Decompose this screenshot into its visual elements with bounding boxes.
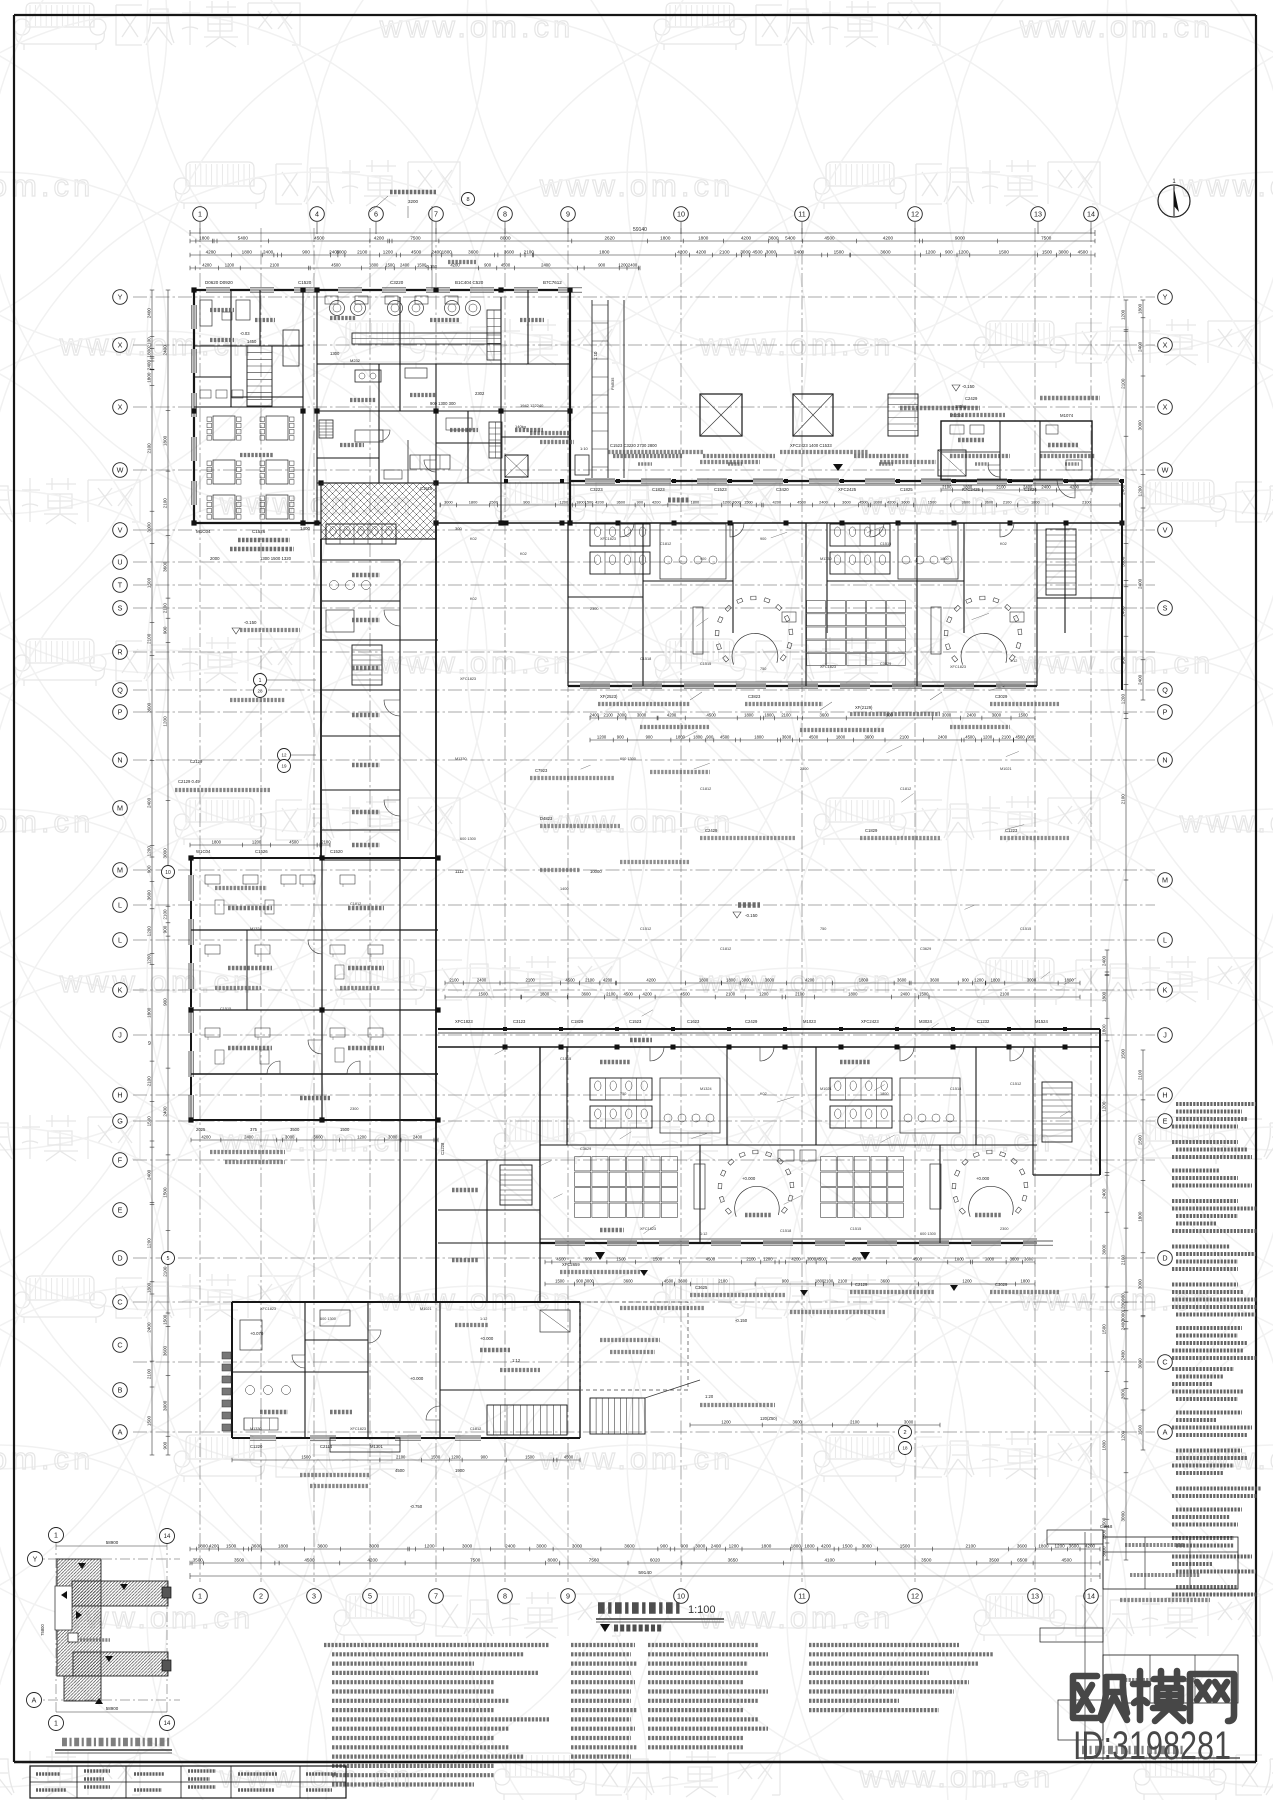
svg-text:Q: Q	[1162, 686, 1168, 695]
svg-text:4200: 4200	[741, 235, 752, 240]
svg-text:2400: 2400	[1102, 1188, 1107, 1199]
annotations below lower wing	[545, 1261, 1035, 1263]
svg-text:C1518: C1518	[950, 1087, 961, 1091]
svg-text:2000: 2000	[210, 556, 220, 561]
svg-text:C: C	[117, 1341, 122, 1350]
svg-text:1: 1	[198, 210, 202, 219]
svg-text:1500: 1500	[226, 1543, 237, 1548]
svg-text:C3823: C3823	[748, 694, 761, 699]
notes column 3	[648, 1643, 758, 1647]
svg-text:900: 900	[163, 1441, 168, 1449]
svg-text:180kg: 180kg	[955, 404, 967, 409]
svg-text:1200: 1200	[146, 846, 151, 857]
boiler/stair hatch blocks	[319, 420, 333, 438]
svg-text:59140: 59140	[638, 1570, 652, 1576]
svg-text:1800: 1800	[1138, 1211, 1143, 1222]
svg-text:300: 300	[455, 526, 462, 531]
svg-text:900: 900	[523, 499, 530, 504]
svg-text:XFC1823: XFC1823	[455, 1019, 473, 1024]
svg-text:1500: 1500	[842, 1543, 853, 1548]
svg-text:1200: 1200	[958, 249, 969, 254]
svg-text:1800: 1800	[991, 977, 1001, 982]
svg-text:120(Z50): 120(Z50)	[760, 1416, 778, 1421]
svg-text:M1021: M1021	[820, 1087, 832, 1091]
svg-text:1800: 1800	[691, 499, 700, 504]
svg-text:1200: 1200	[983, 734, 993, 739]
svg-text:B7C7612: B7C7612	[543, 280, 562, 285]
svg-text:1500: 1500	[555, 1278, 565, 1283]
svg-text:3600: 3600	[962, 499, 971, 504]
svg-text:M1330: M1330	[250, 1427, 262, 1431]
svg-text:4500: 4500	[565, 977, 575, 982]
svg-text:3000: 3000	[873, 499, 882, 504]
svg-text:Q: Q	[117, 686, 123, 695]
svg-text:Y: Y	[33, 1557, 38, 1564]
fire diagram hatched shape	[55, 1559, 168, 1701]
page border frame	[14, 14, 1256, 16]
svg-text:1800: 1800	[599, 249, 610, 254]
svg-text:1200: 1200	[424, 1543, 435, 1548]
svg-text:2300: 2300	[350, 1107, 358, 1111]
svg-text:900: 900	[962, 977, 970, 982]
svg-text:1200: 1200	[451, 1454, 461, 1459]
svg-text:58900: 58900	[106, 1540, 119, 1545]
svg-text:1200: 1200	[759, 991, 769, 996]
svg-text:1500: 1500	[653, 1256, 663, 1261]
svg-text:3000: 3000	[695, 1543, 706, 1548]
svg-text:2100: 2100	[781, 712, 791, 717]
notes column 4 (fire compartment notes)	[809, 1643, 959, 1647]
svg-text:C1223: C1223	[1005, 828, 1018, 833]
svg-text:J: J	[1163, 1031, 1167, 1040]
svg-text:C1518: C1518	[1100, 1524, 1113, 1529]
svg-text:900: 900	[147, 865, 152, 873]
svg-text:1200: 1200	[618, 262, 628, 267]
svg-text:3600: 3600	[768, 235, 779, 240]
svg-text:3000: 3000	[1120, 1388, 1125, 1399]
svg-text:1500: 1500	[919, 991, 929, 996]
svg-text:3500: 3500	[989, 1557, 1000, 1562]
svg-text:C1515: C1515	[700, 662, 711, 666]
svg-text:C3220: C3220	[390, 280, 404, 285]
svg-text:C1829: C1829	[865, 828, 878, 833]
svg-text:-0.150: -0.150	[735, 1318, 748, 1323]
svg-text:M1021: M1021	[420, 1307, 432, 1311]
svg-text:3200: 3200	[408, 199, 419, 204]
svg-text:M232: M232	[350, 358, 361, 363]
svg-text:900 1300 300: 900 1300 300	[430, 401, 456, 406]
svg-text:XFC2425: XFC2425	[838, 487, 857, 492]
svg-text:900: 900	[886, 712, 894, 717]
svg-text:4500: 4500	[707, 712, 717, 717]
bottom axis bubbles	[193, 1589, 208, 1604]
svg-text:900: 900	[585, 1256, 593, 1261]
svg-text:4100: 4100	[824, 1557, 835, 1562]
svg-text:1500: 1500	[147, 1415, 152, 1426]
svg-text:11: 11	[798, 210, 805, 219]
washroom cluster 2 top wing	[830, 524, 890, 546]
svg-text:C2129: C2129	[855, 1282, 868, 1287]
svg-text:H: H	[117, 1091, 122, 1100]
svg-text:M1330: M1330	[820, 557, 832, 561]
svg-text:2025: 2025	[196, 1127, 206, 1132]
svg-text:2100: 2100	[449, 977, 459, 982]
fire diagram grid	[55, 1540, 57, 1725]
right notes column	[1176, 1102, 1256, 1106]
svg-text:M1C04: M1C04	[196, 529, 211, 534]
svg-text:1500: 1500	[928, 499, 937, 504]
svg-text:3000: 3000	[617, 712, 627, 717]
svg-text:K: K	[1163, 986, 1168, 995]
svg-text:4200: 4200	[367, 1557, 378, 1562]
notes column 1	[324, 1643, 549, 1647]
svg-text:2100: 2100	[146, 1076, 151, 1087]
svg-text:3600: 3600	[317, 1543, 328, 1548]
svg-text:N: N	[117, 756, 122, 765]
svg-text:3600: 3600	[162, 561, 167, 572]
svg-text:2100: 2100	[606, 991, 616, 996]
svg-text:+0.000: +0.000	[976, 1176, 990, 1181]
svg-text:18: 18	[902, 1446, 908, 1451]
svg-text:XFC1823: XFC1823	[950, 665, 966, 669]
svg-text:C1518: C1518	[780, 1229, 791, 1233]
svg-text:6500: 6500	[1017, 1557, 1028, 1562]
svg-text:3000: 3000	[444, 499, 453, 504]
grid axes	[199, 228, 201, 1582]
svg-text:2400: 2400	[146, 797, 151, 808]
svg-text:1500: 1500	[1102, 1529, 1107, 1540]
svg-text:2100: 2100	[795, 991, 805, 996]
svg-text:8: 8	[466, 197, 469, 203]
svg-text:4500: 4500	[824, 235, 835, 240]
svg-text:1200: 1200	[1120, 309, 1125, 320]
bottom-left wing outer	[232, 1301, 580, 1303]
svg-text:C1623: C1623	[687, 1019, 700, 1024]
svg-text:M1074: M1074	[1060, 413, 1074, 418]
svg-text:X: X	[118, 341, 123, 350]
svg-text:2400: 2400	[505, 1543, 516, 1548]
svg-text:2100: 2100	[1121, 1255, 1126, 1266]
svg-text:K02: K02	[1000, 542, 1007, 546]
svg-text:3600: 3600	[1010, 1256, 1020, 1261]
svg-text:1800: 1800	[660, 235, 671, 240]
svg-text:1800: 1800	[369, 262, 379, 267]
svg-text:E: E	[1163, 1117, 1168, 1126]
svg-text:C2429: C2429	[705, 828, 718, 833]
svg-text:3500: 3500	[921, 1557, 932, 1562]
svg-text:900: 900	[646, 734, 654, 739]
svg-text:2400: 2400	[1023, 484, 1033, 489]
svg-text:2100: 2100	[965, 1543, 976, 1548]
svg-text:3500: 3500	[290, 1127, 300, 1132]
svg-text:V: V	[1163, 526, 1168, 535]
svg-text:C1523: C1523	[629, 1019, 642, 1024]
svg-text:3000: 3000	[1101, 1546, 1106, 1557]
svg-text:6: 6	[374, 210, 378, 219]
svg-text:4500: 4500	[624, 991, 634, 996]
svg-text:1800: 1800	[726, 977, 736, 982]
stair lower wing right	[1042, 1082, 1072, 1142]
svg-text:C1812: C1812	[720, 947, 731, 951]
svg-text:4200: 4200	[652, 499, 661, 504]
svg-text:M1324: M1324	[700, 1087, 712, 1091]
svg-text:75800: 75800	[40, 1624, 45, 1636]
svg-text:1800: 1800	[836, 734, 846, 739]
svg-text:1800: 1800	[1031, 499, 1040, 504]
svg-text:2400: 2400	[967, 712, 977, 717]
svg-text:2400: 2400	[938, 734, 948, 739]
svg-text:900: 900	[782, 1278, 790, 1283]
svg-text:11: 11	[798, 1592, 805, 1601]
svg-text:1200: 1200	[383, 249, 394, 254]
svg-text:M: M	[1162, 876, 1168, 885]
svg-text:3000: 3000	[1058, 249, 1069, 254]
svg-text:3000: 3000	[741, 977, 751, 982]
svg-text:1800: 1800	[198, 1543, 209, 1548]
svg-text:8000: 8000	[500, 235, 511, 240]
svg-text:S: S	[1163, 604, 1168, 613]
svg-text:1800: 1800	[764, 712, 774, 717]
svg-text:3000: 3000	[992, 712, 1002, 717]
svg-text:19: 19	[281, 764, 287, 769]
svg-text:1800: 1800	[1102, 991, 1107, 1002]
left block outer walls	[191, 857, 438, 859]
north arrow	[1158, 185, 1190, 217]
svg-text:2400: 2400	[263, 249, 274, 254]
svg-text:1500: 1500	[834, 249, 845, 254]
svg-text:1800: 1800	[1138, 303, 1143, 314]
svg-text:12: 12	[911, 210, 919, 219]
svg-text:2400: 2400	[819, 499, 828, 504]
svg-text:2400: 2400	[1102, 955, 1107, 966]
svg-text:K: K	[118, 986, 123, 995]
svg-text:1800: 1800	[1102, 1024, 1107, 1035]
svg-text:4500: 4500	[752, 249, 763, 254]
svg-text:1500: 1500	[385, 262, 395, 267]
svg-text:-0.150: -0.150	[425, 264, 438, 269]
svg-text:2100: 2100	[824, 1278, 834, 1283]
svg-text:P: P	[1163, 708, 1168, 717]
svg-text:C3629: C3629	[920, 947, 931, 951]
svg-text:4200: 4200	[374, 235, 385, 240]
svg-text:C3223: C3223	[590, 487, 603, 492]
svg-text:C3625: C3625	[695, 1285, 708, 1290]
svg-text:4200: 4200	[677, 249, 688, 254]
title block table	[30, 1766, 346, 1798]
svg-text:R: R	[117, 648, 122, 657]
svg-text:1:12: 1:12	[512, 1358, 521, 1363]
svg-text:V: V	[118, 526, 123, 535]
svg-text:900: 900	[1027, 734, 1035, 739]
svg-text:10000: 10000	[590, 869, 602, 874]
svg-text:4500: 4500	[395, 1468, 405, 1473]
svg-text:1200: 1200	[1138, 486, 1143, 497]
svg-text:13: 13	[1031, 1592, 1039, 1601]
door arcs corridors	[620, 523, 634, 537]
svg-text:C1518: C1518	[640, 657, 651, 661]
svg-text:2100: 2100	[726, 991, 736, 996]
svg-text:5400: 5400	[785, 235, 796, 240]
svg-text:M1021: M1021	[1000, 767, 1012, 771]
svg-text:4500: 4500	[1061, 1557, 1072, 1562]
svg-text:4200: 4200	[206, 249, 217, 254]
svg-text:C1512: C1512	[640, 927, 651, 931]
washroom cluster 2 lower wing	[830, 1078, 892, 1100]
activity round table 2	[961, 633, 1007, 664]
svg-text:4500: 4500	[852, 1256, 862, 1261]
svg-text:1450: 1450	[247, 339, 257, 344]
svg-text:58900: 58900	[106, 1706, 119, 1711]
svg-text:750: 750	[820, 927, 826, 931]
lower wing rooms outer	[540, 1242, 1037, 1244]
svg-text:3000: 3000	[1101, 1244, 1106, 1255]
svg-text:1: 1	[259, 678, 262, 684]
svg-text:1:10: 1:10	[580, 446, 589, 451]
fire exit legend	[600, 1624, 610, 1632]
svg-text:-0.150: -0.150	[962, 384, 975, 389]
svg-text:1200: 1200	[147, 954, 152, 965]
svg-text:XFC2423 1400 C1533: XFC2423 1400 C1533	[790, 443, 832, 448]
svg-text:2400: 2400	[147, 1169, 152, 1180]
svg-text:140kg: 140kg	[515, 424, 526, 429]
svg-text:1200: 1200	[146, 926, 151, 937]
svg-text:7500: 7500	[470, 1557, 481, 1562]
svg-text:C3420: C3420	[776, 487, 789, 492]
svg-text:1:100: 1:100	[688, 1604, 716, 1616]
svg-text:12: 12	[911, 1592, 919, 1601]
svg-text:M: M	[117, 866, 123, 875]
svg-text:3600: 3600	[581, 991, 591, 996]
svg-text:3000: 3000	[388, 1134, 398, 1139]
svg-text:C: C	[1162, 1358, 1167, 1367]
svg-text:3000: 3000	[985, 1256, 995, 1261]
svg-text:14: 14	[164, 1721, 171, 1727]
svg-text:1800: 1800	[676, 734, 686, 739]
svg-text:1800: 1800	[754, 734, 764, 739]
svg-text:1800: 1800	[880, 1092, 888, 1096]
svg-text:1800: 1800	[761, 1543, 772, 1548]
svg-text:2300: 2300	[1000, 1227, 1008, 1231]
svg-text:4200: 4200	[1070, 484, 1080, 489]
svg-text:1500: 1500	[431, 1454, 441, 1459]
svg-text:900: 900	[660, 1543, 668, 1548]
svg-text:2400: 2400	[1041, 484, 1051, 489]
svg-text:C2429: C2429	[745, 1019, 758, 1024]
svg-text:1200: 1200	[357, 1134, 367, 1139]
svg-text:C1515: C1515	[1020, 927, 1031, 931]
svg-text:4200: 4200	[595, 499, 604, 504]
svg-text:3000: 3000	[336, 249, 347, 254]
svg-text:900: 900	[163, 925, 168, 933]
svg-text:3600: 3600	[1017, 1543, 1028, 1548]
svg-text:1800: 1800	[791, 1543, 802, 1548]
svg-text:2100: 2100	[1121, 794, 1126, 805]
svg-text:1900: 1900	[455, 1468, 465, 1473]
svg-text:4500: 4500	[706, 1256, 716, 1261]
svg-text:1200: 1200	[597, 734, 607, 739]
svg-text:5400: 5400	[238, 235, 249, 240]
svg-text:1500: 1500	[147, 577, 152, 588]
svg-text:1400: 1400	[300, 526, 311, 531]
svg-text:4200: 4200	[772, 499, 781, 504]
lower wing corridor	[438, 1028, 1100, 1030]
svg-text:C1812: C1812	[350, 902, 361, 906]
svg-text:1800: 1800	[540, 991, 550, 996]
svg-text:1800: 1800	[963, 484, 973, 489]
vent annotations above corridor	[613, 454, 683, 458]
svg-text:14: 14	[1087, 210, 1095, 219]
svg-text:2100: 2100	[1137, 1069, 1142, 1080]
svg-text:3000: 3000	[146, 522, 151, 533]
svg-text:1:12: 1:12	[700, 1232, 707, 1236]
svg-text:3600: 3600	[880, 249, 891, 254]
svg-text:9000: 9000	[955, 235, 966, 240]
svg-text:2400: 2400	[794, 249, 805, 254]
svg-text:8000: 8000	[547, 1557, 558, 1562]
svg-text:3600: 3600	[901, 499, 910, 504]
svg-text:-0.150: -0.150	[745, 913, 758, 918]
svg-text:C2429: C2429	[965, 396, 978, 401]
svg-text:1500: 1500	[1102, 1324, 1107, 1335]
svg-text:4200: 4200	[643, 991, 653, 996]
svg-text:1:12: 1:12	[1010, 659, 1017, 663]
svg-text:1: 1	[54, 1533, 58, 1540]
svg-text:W: W	[1162, 466, 1169, 475]
svg-text:Y: Y	[118, 293, 123, 302]
svg-text:1500: 1500	[489, 499, 498, 504]
svg-text:3600: 3600	[504, 249, 515, 254]
svg-text:1200: 1200	[974, 977, 984, 982]
svg-text:4200: 4200	[667, 712, 677, 717]
svg-text:3000: 3000	[1121, 1311, 1126, 1322]
svg-text:K02: K02	[470, 597, 477, 601]
svg-text:L: L	[118, 936, 122, 945]
svg-text:4500: 4500	[564, 1454, 574, 1459]
svg-text:4500: 4500	[304, 1557, 315, 1562]
svg-text:1800: 1800	[848, 991, 858, 996]
svg-text:2100: 2100	[1082, 499, 1091, 504]
svg-text:2100: 2100	[900, 734, 910, 739]
svg-text:S: S	[118, 604, 123, 613]
svg-text:4500: 4500	[809, 734, 819, 739]
svg-text:B1C404 C520: B1C404 C520	[455, 280, 484, 285]
svg-text:7560: 7560	[589, 1557, 600, 1562]
svg-text:1800: 1800	[699, 977, 709, 982]
svg-text:C: C	[117, 1298, 122, 1307]
svg-text:C1232: C1232	[977, 1019, 990, 1024]
svg-text:M1330: M1330	[455, 757, 467, 761]
svg-text:+0.000: +0.000	[742, 1176, 756, 1181]
washroom cluster 1 top wing	[590, 524, 650, 546]
svg-text:2100: 2100	[585, 977, 595, 982]
svg-text:3600: 3600	[147, 890, 152, 901]
svg-text:XFC1823: XFC1823	[260, 1307, 276, 1311]
svg-text:4200: 4200	[883, 235, 894, 240]
svg-text:C3029: C3029	[995, 694, 1008, 699]
bottom-left wing partitions	[304, 1302, 306, 1438]
svg-text:1200: 1200	[252, 839, 262, 844]
svg-text:7: 7	[434, 1592, 438, 1601]
svg-text:www.om.cn: www.om.cn	[1179, 168, 1273, 203]
svg-text:3600: 3600	[616, 499, 625, 504]
svg-text:L: L	[1163, 936, 1167, 945]
mid annotation leaders	[608, 450, 703, 454]
svg-text:D: D	[117, 1254, 122, 1263]
svg-text:C1523 C3220 2730 2800: C1523 C3220 2730 2800	[610, 443, 657, 448]
svg-text:2400: 2400	[1138, 578, 1143, 589]
svg-text:3000: 3000	[462, 1543, 473, 1548]
stair top wing right	[1046, 529, 1076, 595]
